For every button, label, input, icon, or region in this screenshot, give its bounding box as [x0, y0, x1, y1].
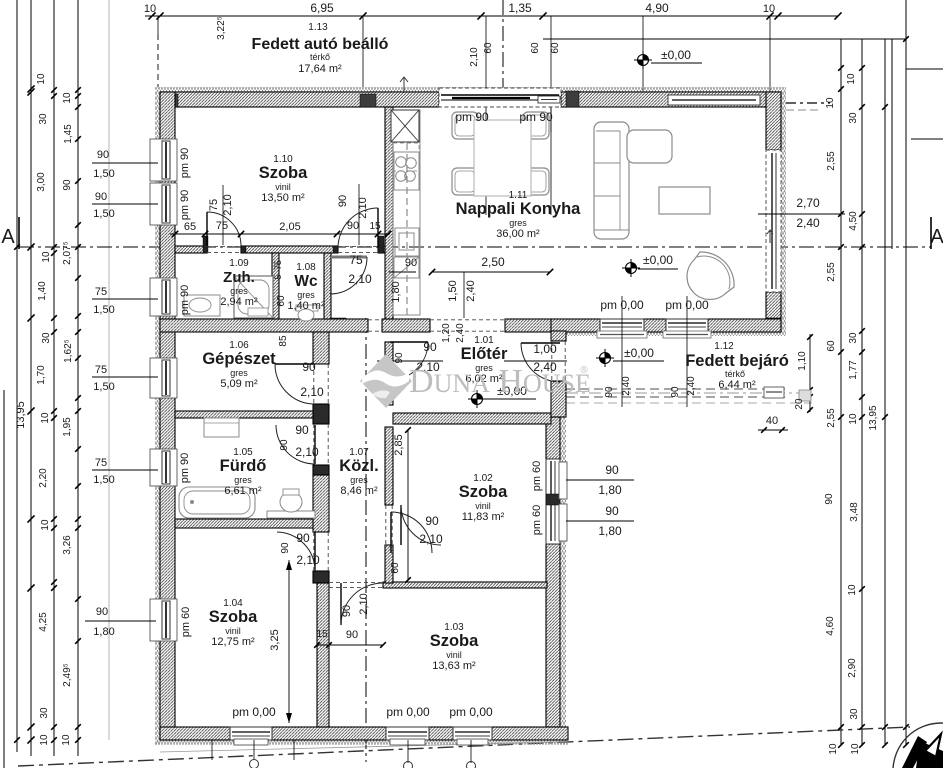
svg-text:75: 75: [95, 286, 107, 298]
svg-text:Fedett autó beálló: Fedett autó beálló: [252, 36, 389, 53]
svg-text:10: 10: [39, 734, 50, 746]
svg-text:2,40: 2,40: [621, 376, 632, 396]
svg-text:30: 30: [38, 113, 49, 125]
svg-text:2,70: 2,70: [796, 196, 820, 210]
svg-text:60: 60: [826, 340, 837, 352]
svg-text:gres: gres: [230, 286, 248, 296]
svg-text:90: 90: [670, 386, 681, 398]
svg-text:2,10: 2,10: [419, 532, 443, 546]
svg-text:5,09 m²: 5,09 m²: [220, 378, 258, 390]
svg-text:90: 90: [97, 149, 109, 161]
svg-text:térkő: térkő: [310, 52, 330, 62]
svg-text:±0,00: ±0,00: [624, 346, 654, 360]
svg-text:60: 60: [483, 42, 494, 54]
svg-text:10: 10: [40, 519, 51, 531]
svg-text:1,40 m²: 1,40 m²: [287, 300, 325, 312]
svg-text:2,07⁵: 2,07⁵: [62, 241, 73, 265]
svg-text:90: 90: [394, 352, 405, 364]
svg-text:10: 10: [763, 3, 775, 15]
svg-text:15: 15: [369, 221, 381, 232]
svg-text:1,35: 1,35: [508, 1, 532, 15]
svg-text:90: 90: [280, 542, 291, 554]
svg-text:90: 90: [296, 531, 310, 545]
svg-text:90: 90: [347, 220, 359, 232]
svg-text:®: ®: [580, 365, 588, 376]
svg-text:3,00: 3,00: [36, 172, 47, 192]
svg-text:90: 90: [604, 386, 615, 398]
svg-text:Közl.: Közl.: [339, 457, 378, 475]
svg-text:10: 10: [848, 413, 859, 425]
svg-text:90: 90: [605, 504, 619, 518]
svg-text:1,50: 1,50: [93, 168, 114, 180]
svg-text:vinil: vinil: [275, 182, 291, 192]
svg-text:2,85: 2,85: [393, 434, 405, 455]
svg-text:pm 0,00: pm 0,00: [600, 298, 644, 312]
svg-text:90: 90: [605, 463, 619, 477]
svg-text:A: A: [930, 226, 943, 248]
svg-text:3,25: 3,25: [269, 629, 281, 650]
svg-text:2,55: 2,55: [826, 151, 837, 171]
svg-text:2,10: 2,10: [296, 553, 320, 567]
svg-text:pm 90: pm 90: [179, 285, 191, 316]
svg-text:4,50: 4,50: [848, 211, 859, 231]
svg-text:36,00 m²: 36,00 m²: [496, 228, 540, 240]
svg-text:pm 60: pm 60: [531, 505, 543, 536]
svg-text:2,10: 2,10: [469, 47, 480, 67]
svg-text:10: 10: [847, 584, 858, 596]
svg-text:1,10: 1,10: [797, 351, 808, 371]
svg-text:1,62⁵: 1,62⁵: [63, 339, 74, 363]
svg-text:2,10: 2,10: [300, 385, 324, 399]
svg-text:10: 10: [62, 92, 73, 104]
svg-text:90: 90: [824, 493, 835, 505]
svg-text:10: 10: [144, 3, 156, 15]
svg-text:90: 90: [337, 195, 349, 207]
svg-text:2,49⁵: 2,49⁵: [62, 663, 73, 687]
svg-text:pm 90: pm 90: [179, 453, 191, 484]
svg-text:13,63 m²: 13,63 m²: [432, 660, 476, 672]
svg-text:30: 30: [848, 112, 859, 124]
svg-text:Szoba: Szoba: [430, 632, 479, 650]
svg-text:75: 75: [95, 364, 107, 376]
svg-text:pm 90: pm 90: [179, 190, 191, 221]
svg-text:10: 10: [850, 743, 861, 755]
svg-text:30: 30: [39, 707, 50, 719]
svg-text:2,05: 2,05: [279, 221, 300, 233]
svg-text:90: 90: [405, 257, 417, 269]
svg-text:vinil: vinil: [475, 501, 491, 511]
svg-text:pm 60: pm 60: [531, 461, 543, 492]
svg-text:vinil: vinil: [225, 626, 241, 636]
svg-text:75: 75: [273, 260, 283, 270]
svg-text:90: 90: [423, 340, 437, 354]
svg-text:4,90: 4,90: [645, 1, 669, 15]
svg-text:6,61 m²: 6,61 m²: [224, 485, 262, 497]
svg-text:90: 90: [95, 191, 107, 203]
svg-text:2,10: 2,10: [358, 593, 370, 614]
svg-text:3,22⁵: 3,22⁵: [216, 16, 227, 40]
svg-text:2,94 m²: 2,94 m²: [220, 296, 258, 308]
svg-text:gres: gres: [297, 290, 315, 300]
svg-text:Fürdő: Fürdő: [220, 457, 267, 475]
svg-text:3,48: 3,48: [849, 502, 860, 522]
svg-text:pm 0,00: pm 0,00: [665, 298, 709, 312]
svg-text:DUNA HOUSE: DUNA HOUSE: [409, 363, 591, 400]
svg-text:1,95: 1,95: [62, 417, 73, 437]
svg-text:1,45: 1,45: [63, 124, 74, 144]
svg-text:75: 75: [208, 199, 220, 211]
svg-text:8,46 m²: 8,46 m²: [340, 485, 378, 497]
svg-text:10: 10: [846, 73, 857, 85]
svg-text:6,95: 6,95: [310, 1, 334, 15]
svg-text:Gépészet: Gépészet: [202, 350, 276, 368]
svg-text:gres: gres: [509, 218, 527, 228]
svg-text:2,40: 2,40: [455, 323, 466, 343]
svg-text:Szoba: Szoba: [259, 164, 308, 182]
svg-text:±0,00: ±0,00: [643, 253, 673, 267]
svg-text:1.12: 1.12: [714, 341, 734, 352]
svg-text:pm 90: pm 90: [519, 110, 553, 124]
svg-text:2,20: 2,20: [38, 468, 49, 488]
svg-text:pm 0,00: pm 0,00: [449, 705, 493, 719]
svg-text:30: 30: [848, 332, 859, 344]
svg-text:1,50: 1,50: [93, 381, 114, 393]
svg-text:13,50 m²: 13,50 m²: [261, 192, 305, 204]
svg-text:15: 15: [316, 629, 328, 640]
svg-text:75: 75: [349, 253, 363, 267]
svg-text:Fedett bejáró: Fedett bejáró: [685, 352, 789, 370]
svg-text:60: 60: [276, 295, 287, 307]
svg-text:2,40: 2,40: [796, 216, 820, 230]
svg-text:90: 90: [346, 629, 358, 641]
svg-text:1,50: 1,50: [447, 280, 459, 301]
svg-text:90: 90: [425, 514, 439, 528]
svg-text:30: 30: [41, 332, 52, 344]
svg-text:2,10: 2,10: [222, 194, 234, 215]
svg-text:4,25: 4,25: [38, 612, 49, 632]
svg-text:10: 10: [61, 734, 72, 746]
svg-text:17,64 m²: 17,64 m²: [298, 63, 342, 75]
svg-text:1,80: 1,80: [93, 626, 114, 638]
svg-text:60: 60: [550, 42, 561, 54]
svg-text:60: 60: [530, 42, 541, 54]
svg-text:2,55: 2,55: [826, 408, 837, 428]
svg-text:60: 60: [390, 562, 401, 574]
svg-text:Előtér: Előtér: [461, 345, 508, 363]
svg-text:10: 10: [36, 73, 47, 85]
svg-text:1,50: 1,50: [93, 474, 114, 486]
svg-text:1,00: 1,00: [533, 342, 557, 356]
svg-text:Wc: Wc: [294, 273, 318, 290]
svg-text:pm 90: pm 90: [179, 148, 191, 179]
svg-text:1,40: 1,40: [37, 281, 48, 301]
svg-text:90: 90: [62, 179, 73, 191]
svg-text:Zuh.: Zuh.: [223, 269, 255, 286]
svg-text:1,80: 1,80: [390, 281, 402, 302]
svg-text:20: 20: [794, 398, 805, 410]
svg-text:4,60: 4,60: [825, 616, 836, 636]
svg-text:2,40: 2,40: [686, 376, 697, 396]
svg-text:12,75 m²: 12,75 m²: [211, 636, 255, 648]
svg-text:90: 90: [302, 360, 316, 374]
svg-text:65: 65: [184, 221, 196, 233]
svg-text:90: 90: [295, 423, 309, 437]
svg-text:1,80: 1,80: [598, 483, 622, 497]
svg-text:11,83 m²: 11,83 m²: [462, 511, 505, 523]
svg-text:gres: gres: [350, 475, 368, 485]
svg-text:30: 30: [849, 708, 860, 720]
svg-text:1,80: 1,80: [598, 524, 622, 538]
svg-text:vinil: vinil: [446, 650, 462, 660]
svg-text:2,90: 2,90: [847, 658, 858, 678]
svg-text:Nappali Konyha: Nappali Konyha: [456, 200, 582, 218]
svg-text:1,77: 1,77: [848, 360, 859, 380]
svg-text:90: 90: [279, 439, 290, 451]
svg-text:2,50: 2,50: [481, 255, 505, 269]
svg-text:1,50: 1,50: [93, 304, 114, 316]
svg-text:13,95: 13,95: [868, 405, 879, 430]
svg-text:10: 10: [41, 251, 52, 263]
svg-text:6,44 m²: 6,44 m²: [718, 379, 756, 391]
svg-text:2,40: 2,40: [465, 280, 477, 301]
svg-text:pm 90: pm 90: [455, 110, 489, 124]
svg-text:gres: gres: [230, 368, 248, 378]
svg-text:2,10: 2,10: [295, 445, 319, 459]
svg-text:13,95: 13,95: [15, 401, 27, 429]
svg-text:±0,00: ±0,00: [661, 48, 691, 62]
svg-text:75: 75: [95, 457, 107, 469]
svg-text:10: 10: [825, 97, 836, 109]
svg-text:gres: gres: [234, 475, 252, 485]
svg-text:térkő: térkő: [725, 369, 745, 379]
svg-text:1,50: 1,50: [93, 208, 114, 220]
svg-text:1,20: 1,20: [441, 323, 452, 343]
svg-text:5: 5: [273, 274, 283, 279]
svg-text:A: A: [1, 226, 15, 248]
svg-text:10: 10: [828, 743, 839, 755]
svg-text:2,10: 2,10: [348, 272, 372, 286]
svg-text:85: 85: [278, 335, 289, 347]
svg-text:pm 0,00: pm 0,00: [232, 705, 276, 719]
svg-text:Szoba: Szoba: [459, 483, 508, 501]
svg-text:2,55: 2,55: [826, 262, 837, 282]
svg-text:40: 40: [766, 415, 778, 427]
svg-text:1,70: 1,70: [36, 365, 47, 385]
svg-text:1.09: 1.09: [229, 258, 249, 269]
svg-text:1.08: 1.08: [296, 262, 316, 273]
svg-text:3,26: 3,26: [62, 535, 73, 555]
svg-text:10: 10: [40, 412, 51, 424]
svg-text:75: 75: [216, 220, 228, 232]
svg-text:90: 90: [96, 606, 108, 618]
svg-text:pm 0,00: pm 0,00: [386, 705, 430, 719]
svg-text:pm 60: pm 60: [180, 607, 192, 638]
svg-text:90: 90: [341, 605, 353, 617]
svg-text:Szoba: Szoba: [209, 608, 258, 626]
svg-text:1.13: 1.13: [308, 22, 328, 33]
